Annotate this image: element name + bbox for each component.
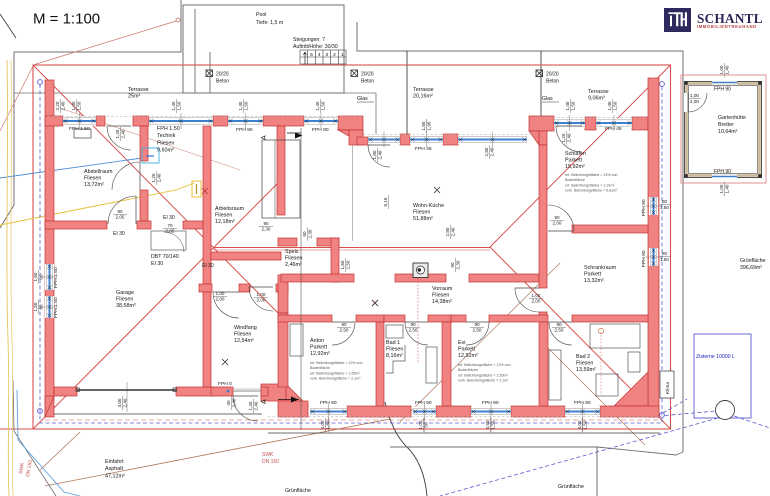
svg-text:20/20: 20/20 xyxy=(546,72,559,78)
svg-text:Terrasse: Terrasse xyxy=(588,89,609,95)
top-right corner block xyxy=(632,117,648,130)
svg-text:1,40: 1,40 xyxy=(724,65,729,74)
svg-text:1,80: 1,80 xyxy=(372,150,377,159)
svg-text:50: 50 xyxy=(423,422,428,428)
svg-text:Terrasse: Terrasse xyxy=(128,87,149,93)
light service line xyxy=(60,108,240,170)
svg-text:Evi: Evi xyxy=(458,340,466,346)
svg-text:1,20: 1,20 xyxy=(248,401,253,410)
svg-text:Schlafen: Schlafen xyxy=(565,151,586,157)
Windfang north wall piece 1 xyxy=(199,284,212,292)
svg-text:90: 90 xyxy=(410,322,416,327)
svg-text:FPH 90: FPH 90 xyxy=(415,400,432,406)
svg-text:FPH 90: FPH 90 xyxy=(714,87,731,93)
svg-text:2,50: 2,50 xyxy=(555,327,564,332)
svg-text:12,92m²: 12,92m² xyxy=(310,351,330,357)
light red corner lines top-left xyxy=(0,66,33,131)
garage sectional door xyxy=(77,389,176,391)
svg-text:2,00: 2,00 xyxy=(690,99,699,104)
svg-text:FPH 45: FPH 45 xyxy=(415,146,432,152)
svg-text:1,50: 1,50 xyxy=(490,420,495,429)
bottom wall pillar xyxy=(511,406,565,417)
svg-text:2: 2 xyxy=(333,52,336,58)
svg-text:20/20: 20/20 xyxy=(361,72,374,78)
wall piece between doors xyxy=(137,221,151,229)
svg-text:Gartenhütte: Gartenhütte xyxy=(718,115,746,121)
svg-text:2,80: 2,80 xyxy=(445,227,450,236)
dashed wall face lines xyxy=(48,115,363,117)
svg-text:9,60m²: 9,60m² xyxy=(157,148,174,154)
shed window top xyxy=(712,81,737,85)
svg-text:1,40: 1,40 xyxy=(71,101,76,110)
svg-text:FPH 90: FPH 90 xyxy=(714,169,731,175)
svg-text:2,40: 2,40 xyxy=(566,133,571,142)
property boundary right xyxy=(357,22,683,452)
left exterior wall xyxy=(45,80,54,417)
svg-text:2,40: 2,40 xyxy=(489,147,494,156)
fence line bottom-right xyxy=(390,447,597,496)
svg-text:9,06m²: 9,06m² xyxy=(588,95,605,101)
svg-text:1,50: 1,50 xyxy=(320,101,325,110)
svg-text:3: 3 xyxy=(325,52,328,58)
SCHANTL logo xyxy=(664,8,691,32)
svg-text:2,40: 2,40 xyxy=(122,398,127,407)
top wall pillar 2 (Technik junction) xyxy=(133,116,149,126)
svg-text:20/20: 20/20 xyxy=(216,72,229,78)
garage door dim line xyxy=(126,382,128,412)
door Anton xyxy=(332,322,355,345)
windows Schlafen terrace xyxy=(554,115,585,131)
shed door xyxy=(684,93,688,112)
bottom wall pillar xyxy=(436,406,471,417)
svg-text:Beton: Beton xyxy=(546,79,559,85)
sewer line crossing baths xyxy=(400,263,560,422)
svg-text:2,80: 2,80 xyxy=(484,147,489,156)
svg-text:2,40: 2,40 xyxy=(231,398,236,407)
svg-text:13,72m²: 13,72m² xyxy=(84,182,104,188)
Wohnkueche/Vorraum wall xyxy=(281,274,354,282)
roof bottom line extension xyxy=(0,428,33,430)
svg-text:1,00: 1,00 xyxy=(257,292,266,297)
svg-text:Terrasse: Terrasse xyxy=(413,87,434,93)
front entrance door xyxy=(233,396,258,421)
svg-text:5,15: 5,15 xyxy=(383,197,388,206)
svg-text:4,00: 4,00 xyxy=(117,398,122,407)
top wall pillar 1 xyxy=(96,116,105,126)
svg-text:1,50: 1,50 xyxy=(582,420,587,429)
door Vorraum/Schrankraum xyxy=(515,288,539,312)
svg-text:1,40: 1,40 xyxy=(171,101,176,110)
svg-text:FPH 90: FPH 90 xyxy=(574,400,591,406)
svg-text:A: A xyxy=(261,135,268,140)
Wohnkueche/Schlafen wall xyxy=(539,145,547,288)
svg-text:4,00: 4,00 xyxy=(577,420,582,429)
svg-text:1,60: 1,60 xyxy=(340,260,345,269)
svg-text:80: 80 xyxy=(38,304,43,310)
svg-text:2,30: 2,30 xyxy=(262,226,271,231)
road edge lines bottom-left xyxy=(13,380,56,496)
svg-text:20,16m²: 20,16m² xyxy=(413,93,433,99)
svg-text:DBT 70/140: DBT 70/140 xyxy=(151,254,179,260)
Gartenhuette shed xyxy=(681,75,766,183)
svg-text:Auftritt/Höhe: 30/30: Auftritt/Höhe: 30/30 xyxy=(293,44,338,50)
roof ridge xyxy=(213,247,490,249)
svg-text:2,00: 2,00 xyxy=(216,296,225,301)
svg-text:90: 90 xyxy=(263,221,269,226)
roof hip bottom-left xyxy=(33,183,278,429)
svg-text:90: 90 xyxy=(556,322,562,327)
svg-text:Asphalt: Asphalt xyxy=(105,466,123,472)
svg-text:vorh. Belichtungsfläche = 6,81: vorh. Belichtungsfläche = 6,81m² xyxy=(565,189,618,193)
svg-text:Technik: Technik xyxy=(157,133,176,139)
svg-text:SWK: SWK xyxy=(262,452,274,458)
Zisterne tank xyxy=(694,334,751,418)
shed window bottom xyxy=(712,175,737,179)
svg-text:1,50: 1,50 xyxy=(570,101,575,110)
svg-text:Bodenfläche: Bodenfläche xyxy=(458,368,478,372)
svg-text:1,50: 1,50 xyxy=(660,205,669,210)
svg-text:1,40: 1,40 xyxy=(565,101,570,110)
svg-text:EI 30: EI 30 xyxy=(151,261,163,267)
svg-text:Schrankraum: Schrankraum xyxy=(584,265,617,271)
svg-text:Vorraum: Vorraum xyxy=(432,286,453,292)
Evi wardrobe xyxy=(426,347,437,383)
svg-text:Fliesen: Fliesen xyxy=(215,212,232,218)
svg-text:80: 80 xyxy=(662,199,668,204)
svg-text:erf. Belichtungsfläche = 1,55m: erf. Belichtungsfläche = 1,55m² xyxy=(458,373,508,377)
window FPH1.50 Technik xyxy=(149,113,213,129)
Speis walls xyxy=(278,238,297,246)
plinth lines xyxy=(52,413,262,415)
svg-text:FPH 0: FPH 0 xyxy=(218,381,232,387)
left wall bottom bevel xyxy=(45,396,54,417)
svg-text:Bad 1: Bad 1 xyxy=(386,340,400,346)
door Evi xyxy=(466,322,489,345)
door Windfang left xyxy=(213,292,239,318)
Schlafen top pillar xyxy=(585,117,596,130)
svg-text:2,46m²: 2,46m² xyxy=(285,262,302,268)
svg-text:1,00: 1,00 xyxy=(719,65,724,74)
window FPH1.50 Abstellraum xyxy=(63,113,96,129)
svg-text:FPH 1.50: FPH 1.50 xyxy=(69,126,90,132)
svg-text:Fliesen: Fliesen xyxy=(84,175,101,181)
svg-text:Glas: Glas xyxy=(357,96,368,102)
svg-text:Abstellraum: Abstellraum xyxy=(84,169,113,175)
bottom row top wall y315 xyxy=(278,315,332,322)
svg-text:DN 150: DN 150 xyxy=(262,459,279,465)
svg-text:90: 90 xyxy=(450,262,455,268)
bottom wall pillar (wide) xyxy=(347,406,411,417)
svg-text:FPH 90: FPH 90 xyxy=(312,127,329,133)
svg-text:1,40: 1,40 xyxy=(238,101,243,110)
Klima box xyxy=(660,371,674,398)
svg-text:4: 4 xyxy=(318,52,321,58)
svg-text:Pool: Pool xyxy=(256,12,266,18)
svg-text:Windfang: Windfang xyxy=(234,325,257,331)
svg-text:Bodenfläche: Bodenfläche xyxy=(565,178,585,182)
stub to Wohnkueche door xyxy=(357,137,368,145)
svg-text:1,50: 1,50 xyxy=(176,101,181,110)
svg-text:1,50: 1,50 xyxy=(243,101,248,110)
svg-text:2,40: 2,40 xyxy=(120,129,125,138)
svg-text:1,20: 1,20 xyxy=(115,129,120,138)
svg-text:80: 80 xyxy=(117,209,123,214)
top wall pillar 3 xyxy=(213,116,228,126)
svg-text:1,00: 1,00 xyxy=(690,93,699,98)
svg-text:4,00: 4,00 xyxy=(320,420,325,429)
svg-text:2,50: 2,50 xyxy=(473,327,482,332)
svg-text:FPH 90: FPH 90 xyxy=(320,400,337,406)
black x markers xyxy=(434,187,440,193)
svg-text:EI 30: EI 30 xyxy=(113,231,125,237)
bottom wall step corner at entrance xyxy=(261,384,286,401)
svg-text:13,32m²: 13,32m² xyxy=(584,278,604,284)
column markers 20/20 Beton xyxy=(206,70,213,77)
gas main yellow vertical xyxy=(7,60,9,496)
door Technik exterior xyxy=(107,126,131,150)
svg-text:5: 5 xyxy=(310,52,313,58)
svg-text:2,40: 2,40 xyxy=(253,401,258,410)
svg-text:2,05: 2,05 xyxy=(166,228,175,233)
window FPH90 Arbeitsraum 1 xyxy=(228,113,263,129)
svg-text:8,16m²: 8,16m² xyxy=(386,353,403,359)
svg-text:2,40: 2,40 xyxy=(377,150,382,159)
Windfang east wall upper xyxy=(278,275,288,313)
shed door arc xyxy=(688,93,707,112)
terrace upper edge line xyxy=(14,92,376,94)
svg-text:12,92m²: 12,92m² xyxy=(458,353,478,359)
Garage/Windfang wall xyxy=(203,292,211,387)
svg-text:Beton: Beton xyxy=(216,79,229,85)
roof hip top-right xyxy=(490,65,671,247)
Bad1 fixtures xyxy=(386,345,405,373)
door EI30 garage/Abstellraum xyxy=(108,196,136,224)
Arbeitsraum south wall xyxy=(211,252,281,260)
svg-text:2,50: 2,50 xyxy=(345,260,350,269)
svg-text:90: 90 xyxy=(474,322,480,327)
top wall corner block at Wohnkueche step xyxy=(338,116,363,130)
svg-text:IMMOBILIENTREUHAND: IMMOBILIENTREUHAND xyxy=(697,24,757,29)
svg-text:Wohn-Küche: Wohn-Küche xyxy=(413,203,444,209)
bottom row dividers xyxy=(376,322,384,406)
terrace column lines xyxy=(406,51,408,135)
yellow gas box xyxy=(192,181,201,197)
svg-text:14,38m²: 14,38m² xyxy=(432,299,452,305)
svg-text:1,50: 1,50 xyxy=(660,257,669,262)
svg-text:1,00: 1,00 xyxy=(418,420,423,429)
door Bad 1 xyxy=(405,322,428,345)
svg-text:erf. Belichtungsfläche = 12% v: erf. Belichtungsfläche = 12% von xyxy=(565,173,617,177)
Technik south stub xyxy=(183,221,203,229)
garage door stub right xyxy=(176,387,215,396)
svg-text:FPH 90: FPH 90 xyxy=(236,127,253,133)
svg-text:1,20: 1,20 xyxy=(151,173,156,182)
sewer line SWK diagonal lower-left xyxy=(45,419,390,486)
svg-text:12,54m²: 12,54m² xyxy=(234,338,254,344)
top wall pillar 4 (wide) xyxy=(263,116,304,126)
svg-text:2,50: 2,50 xyxy=(340,327,349,332)
svg-text:FPH 1.50: FPH 1.50 xyxy=(157,126,180,132)
gas line yellow xyxy=(0,183,194,225)
svg-text:2,40: 2,40 xyxy=(156,173,161,182)
svg-text:Fliesen: Fliesen xyxy=(413,209,430,215)
svg-text:80: 80 xyxy=(38,274,43,280)
terrain curve bottom-middle xyxy=(385,402,427,496)
svg-text:1,85: 1,85 xyxy=(421,121,426,130)
roof hip bottom-right xyxy=(490,247,671,429)
windows left wall garage xyxy=(42,264,58,290)
blue dashed connections xyxy=(440,399,770,496)
svg-text:Anton: Anton xyxy=(310,338,324,344)
svg-text:1,50: 1,50 xyxy=(325,420,330,429)
door Abstellraum/Technik xyxy=(112,162,140,190)
pool outline xyxy=(183,5,344,93)
svg-text:1,40: 1,40 xyxy=(724,184,729,193)
Windfang north wall piece 3 xyxy=(276,284,288,292)
svg-text:1,00: 1,00 xyxy=(719,184,724,193)
windfang bottom wall piece xyxy=(211,387,233,396)
top wall corner block NW xyxy=(45,116,63,126)
door Wohnkueche terrace xyxy=(368,145,390,167)
door Schlafen/Schrankraum xyxy=(548,205,574,231)
svg-text:vorh. Belichtungsfläche = 2,1m: vorh. Belichtungsfläche = 2,1m² xyxy=(458,379,509,383)
svg-text:2,00: 2,00 xyxy=(553,220,562,225)
svg-text:1,50: 1,50 xyxy=(33,302,38,311)
svg-text:51,88m²: 51,88m² xyxy=(413,216,433,222)
svg-text:Grünfläche: Grünfläche xyxy=(558,484,584,490)
roof edge rectangle xyxy=(33,65,671,429)
svg-text:2,40: 2,40 xyxy=(60,101,65,110)
svg-text:1,50: 1,50 xyxy=(76,101,81,110)
Abstellraum south wall w/ EI30 door xyxy=(45,221,107,229)
Technik/Arbeitsraum wall xyxy=(203,126,211,284)
svg-text:Klima: Klima xyxy=(665,382,671,394)
svg-text:Fliesen: Fliesen xyxy=(116,296,133,302)
roof hip top-left xyxy=(33,65,278,313)
svg-text:FPH 1.50: FPH 1.50 xyxy=(53,267,59,288)
Anton wardrobe xyxy=(290,324,303,356)
svg-text:1,00: 1,00 xyxy=(532,293,541,298)
svg-text:FPH 45: FPH 45 xyxy=(605,126,622,132)
svg-text:25m²: 25m² xyxy=(128,93,140,99)
windows Wohnkueche terrace xyxy=(368,132,400,148)
door Windfang right xyxy=(249,287,273,311)
svg-text:A: A xyxy=(261,399,268,404)
svg-text:2,40: 2,40 xyxy=(450,227,455,236)
section line A-A xyxy=(300,128,302,430)
svg-text:Parkett: Parkett xyxy=(565,157,583,163)
Windfang/Anton wall xyxy=(278,313,288,387)
svg-text:Parkett: Parkett xyxy=(458,346,476,352)
svg-text:80: 80 xyxy=(662,251,668,256)
svg-text:15,92m²: 15,92m² xyxy=(565,164,585,170)
svg-text:Parkett: Parkett xyxy=(584,271,602,277)
svg-text:2,05: 2,05 xyxy=(116,214,125,219)
red dotted flue line xyxy=(417,278,419,362)
callout line with circle xyxy=(33,21,176,65)
svg-text:Bodenfläche: Bodenfläche xyxy=(310,366,330,370)
svg-text:Fliesen: Fliesen xyxy=(386,346,403,352)
front door sidelight xyxy=(233,390,261,392)
svg-text:FPH 1.50: FPH 1.50 xyxy=(53,297,59,318)
svg-text:Fliesen: Fliesen xyxy=(285,255,302,261)
cyan control box Technik xyxy=(142,148,159,163)
svg-text:80: 80 xyxy=(302,231,307,237)
svg-text:FPH 90: FPH 90 xyxy=(641,199,647,216)
Arbeitsraum east wall xyxy=(277,126,285,215)
wardrobe/stair rect Arbeitsraum xyxy=(262,140,300,218)
svg-text:396,69m²: 396,69m² xyxy=(740,265,762,271)
svg-text:70: 70 xyxy=(167,223,173,228)
bottom-right corner bevel xyxy=(614,372,648,406)
svg-text:vorh. Belichtungsfläche = 2,1m: vorh. Belichtungsfläche = 2,1m² xyxy=(310,377,361,381)
svg-text:Arbeitsraum: Arbeitsraum xyxy=(215,206,245,212)
Wohnkueche top pillar 1 xyxy=(400,134,410,145)
svg-text:FPH 90: FPH 90 xyxy=(482,400,499,406)
svg-text:Parkett: Parkett xyxy=(310,344,328,350)
Schlafen/Schrankraum wall xyxy=(572,225,648,233)
svg-text:Fliesen: Fliesen xyxy=(234,331,251,337)
svg-text:Beton: Beton xyxy=(361,79,374,85)
Wohnkueche top pillar 2 xyxy=(443,134,458,145)
svg-text:38,58m²: 38,58m² xyxy=(116,303,136,309)
DBT 70/140 hatch xyxy=(151,231,186,250)
svg-text:Speis: Speis xyxy=(285,249,299,255)
svg-text:Grünfläche: Grünfläche xyxy=(740,258,765,264)
bottom wall corner block SE xyxy=(600,406,659,417)
svg-text:2,30: 2,30 xyxy=(455,260,460,269)
svg-text:1,60: 1,60 xyxy=(33,272,38,281)
Abstellraum/Technik wall lower xyxy=(140,190,148,221)
svg-text:1,50: 1,50 xyxy=(612,101,617,110)
property boundary left xyxy=(0,0,181,228)
windows bottom wall xyxy=(310,404,347,420)
svg-text:FPH 90: FPH 90 xyxy=(641,250,647,267)
svg-text:90: 90 xyxy=(554,215,560,220)
svg-text:90: 90 xyxy=(341,322,347,327)
red dashed line above bottom xyxy=(45,419,660,421)
svg-text:Bretter: Bretter xyxy=(718,122,734,128)
stove fixture Vorraum xyxy=(413,263,428,278)
svg-text:1,40: 1,40 xyxy=(315,101,320,110)
svg-text:Garage: Garage xyxy=(116,290,134,296)
svg-text:2,00: 2,00 xyxy=(532,298,541,303)
svg-text:1,40: 1,40 xyxy=(607,101,612,110)
svg-text:EI 30: EI 30 xyxy=(202,263,214,269)
svg-text:4,50: 4,50 xyxy=(485,420,490,429)
door Bad 2 xyxy=(549,322,572,345)
svg-text:10,64m²: 10,64m² xyxy=(718,129,738,135)
cabinet box below window xyxy=(74,129,91,138)
svg-text:1,00: 1,00 xyxy=(216,291,225,296)
sewer stub bottom-left xyxy=(40,432,80,470)
svg-text:2,50: 2,50 xyxy=(409,327,418,332)
dimension labels xyxy=(71,99,82,113)
red x markers xyxy=(202,188,208,194)
water line blue xyxy=(0,156,148,178)
door Schlafen terrace xyxy=(556,126,582,152)
svg-text:erf. Belichtungsfläche = 1,91m: erf. Belichtungsfläche = 1,91m² xyxy=(565,183,615,187)
Windfang north wall piece 2 xyxy=(239,284,250,292)
svg-text:Einfahrt: Einfahrt xyxy=(105,459,124,465)
right exterior wall xyxy=(648,78,659,417)
window FPH90 Arbeitsraum 2 xyxy=(304,113,338,129)
svg-text:Fliesen: Fliesen xyxy=(576,360,593,366)
svg-text:Bad 2: Bad 2 xyxy=(576,354,590,360)
svg-text:2,30: 2,30 xyxy=(307,229,312,238)
garage door stub left xyxy=(54,387,77,396)
svg-text:Zisterne 10000 L: Zisterne 10000 L xyxy=(696,354,735,360)
